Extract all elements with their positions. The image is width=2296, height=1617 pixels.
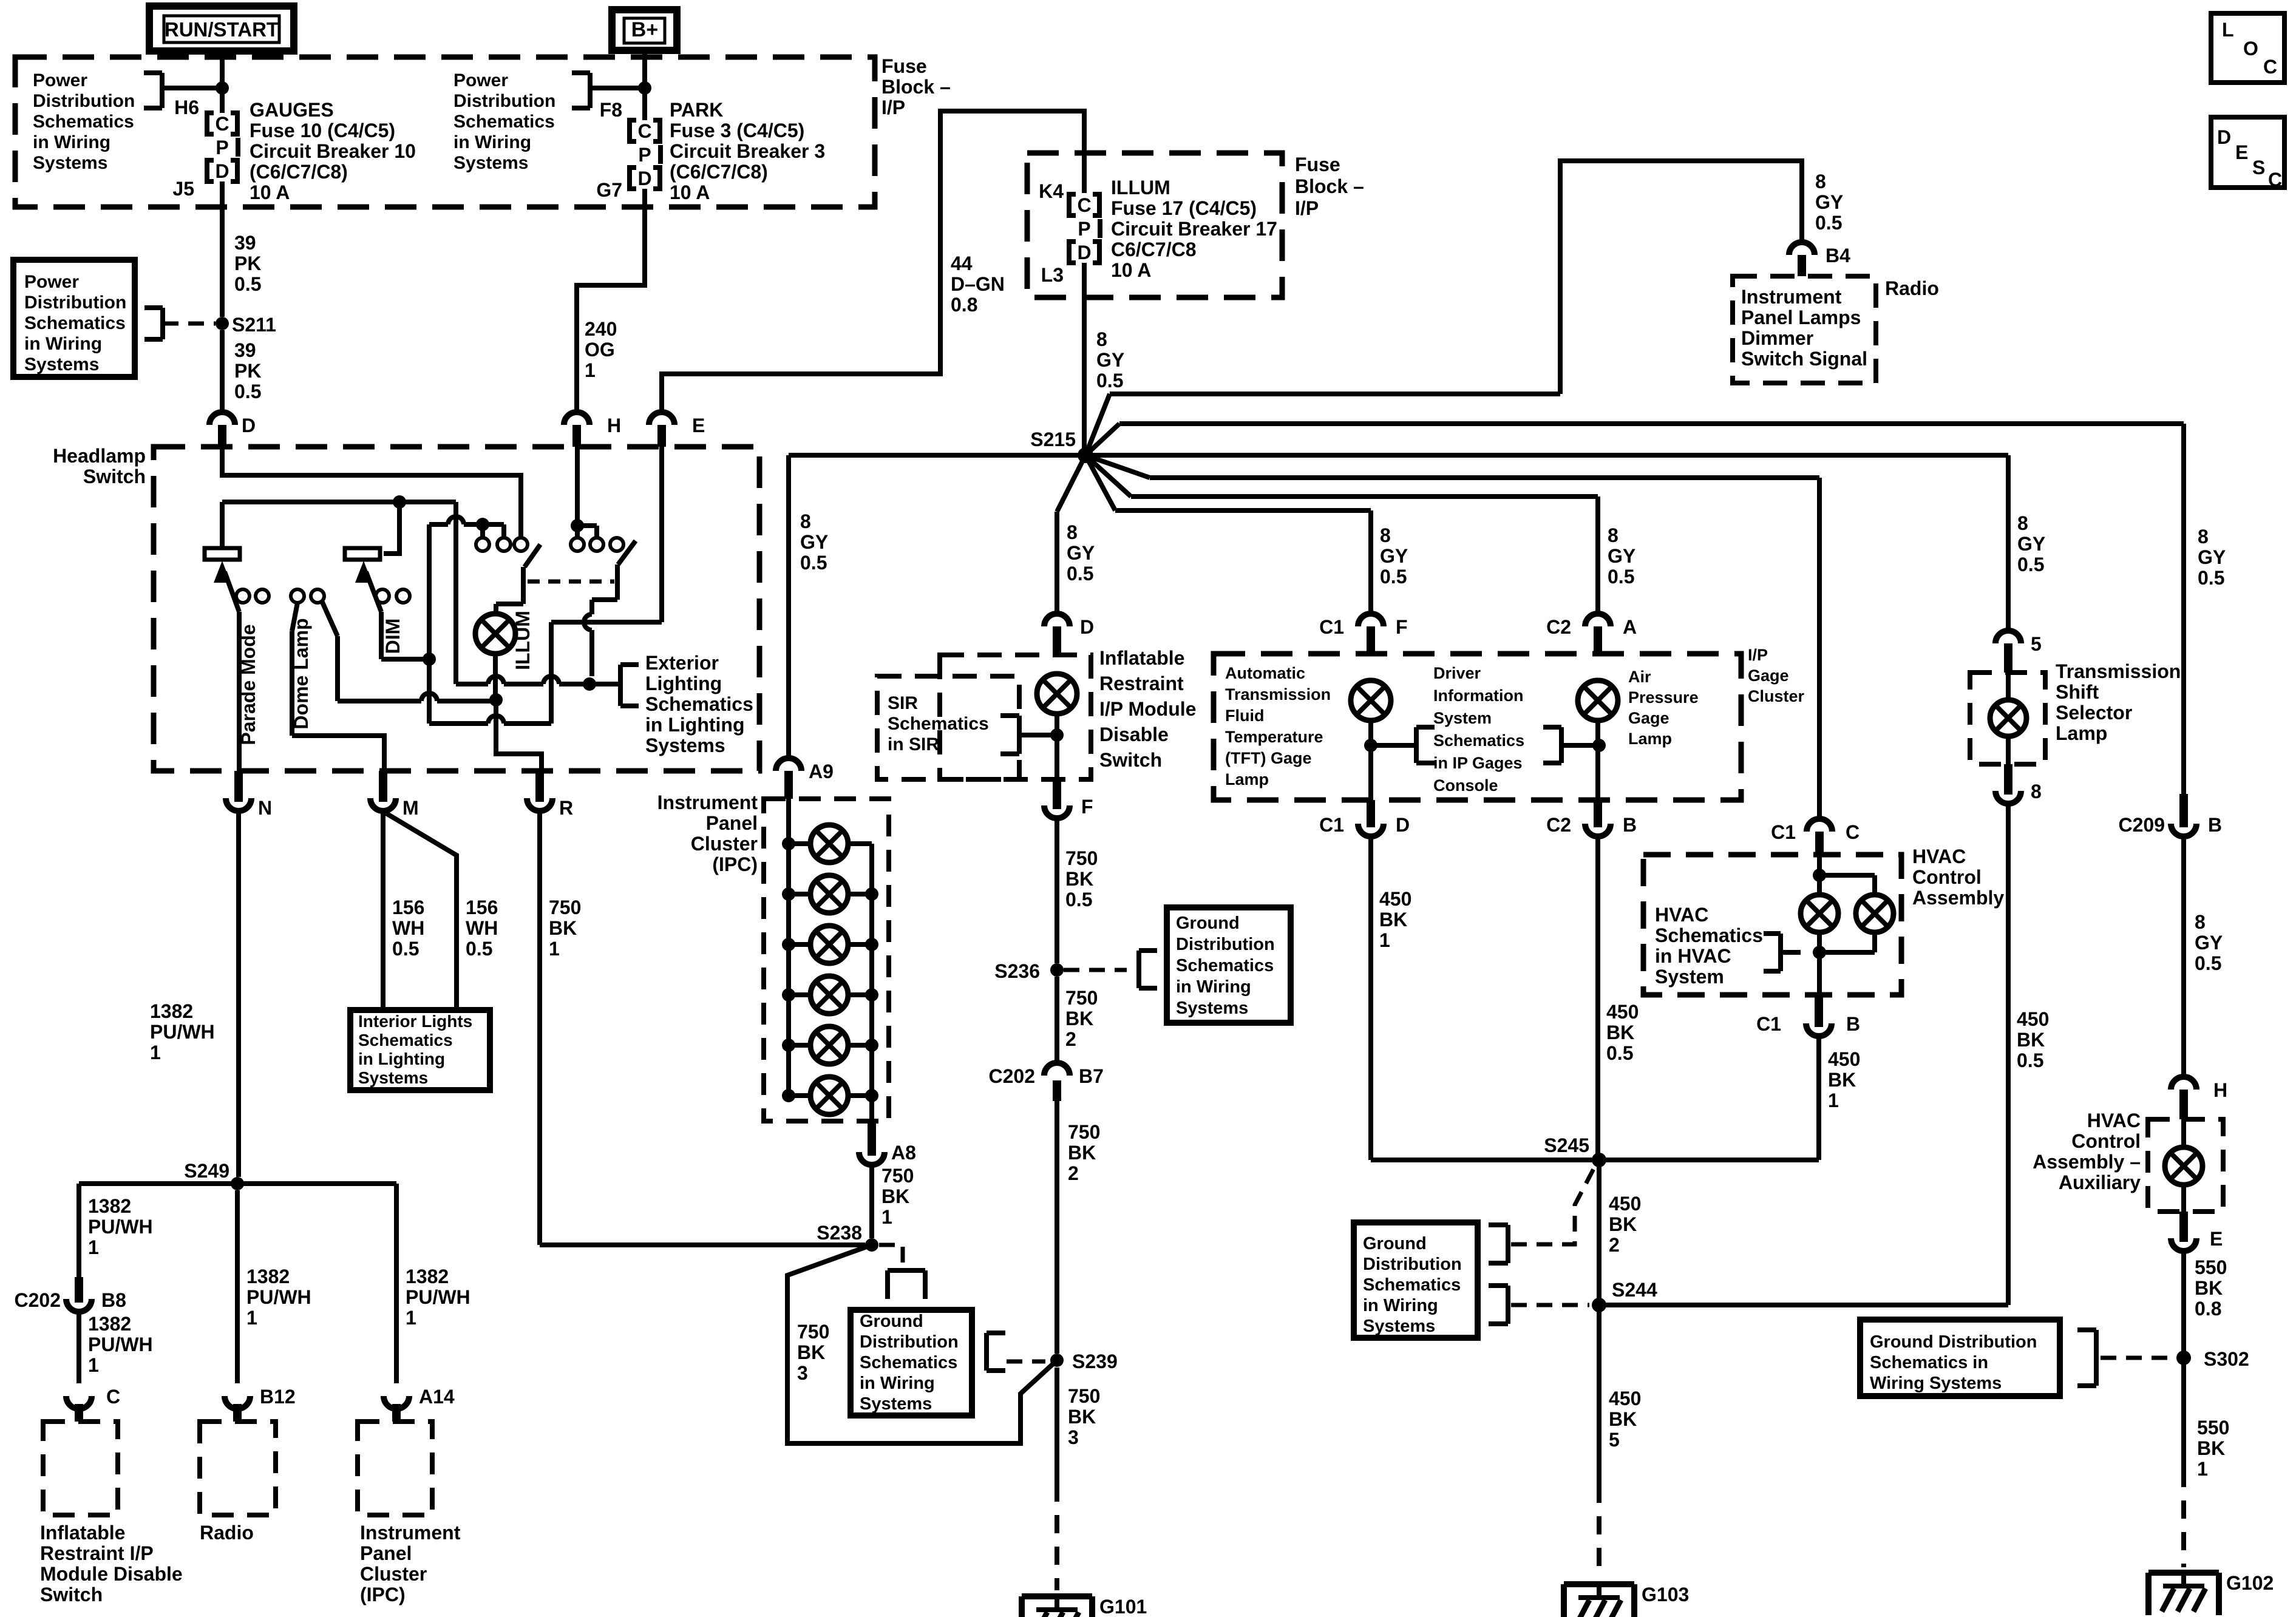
svg-text:PK: PK <box>234 253 261 274</box>
svg-text:Systems: Systems <box>33 153 107 173</box>
svg-text:Switch: Switch <box>40 1584 103 1605</box>
svg-text:Schematics: Schematics <box>888 714 989 734</box>
svg-text:HVAC: HVAC <box>2087 1110 2141 1131</box>
svg-text:750: 750 <box>549 897 581 918</box>
svg-text:Ground: Ground <box>1176 914 1240 933</box>
svg-text:RUN/START: RUN/START <box>165 18 279 41</box>
svg-text:C: C <box>2268 169 2282 191</box>
svg-text:B+: B+ <box>631 18 658 41</box>
svg-text:Systems: Systems <box>358 1068 428 1087</box>
svg-text:0.5: 0.5 <box>1067 563 1093 585</box>
svg-text:8: 8 <box>1815 171 1826 192</box>
svg-text:D: D <box>215 160 229 182</box>
svg-text:P: P <box>1078 218 1090 240</box>
svg-text:Fuse: Fuse <box>881 55 927 77</box>
svg-text:Schematics: Schematics <box>1176 956 1274 975</box>
svg-text:B12: B12 <box>260 1386 296 1408</box>
svg-text:Inflatable: Inflatable <box>1099 647 1184 669</box>
svg-text:B7: B7 <box>1079 1065 1104 1087</box>
svg-text:S211: S211 <box>232 314 276 336</box>
svg-text:Cluster: Cluster <box>1748 687 1805 705</box>
svg-text:C: C <box>215 113 229 135</box>
svg-text:D: D <box>1077 242 1091 263</box>
svg-text:1: 1 <box>406 1307 416 1329</box>
svg-text:1382: 1382 <box>150 1000 193 1022</box>
svg-text:S302: S302 <box>2204 1348 2249 1370</box>
svg-text:Power: Power <box>24 272 79 292</box>
svg-text:Restraint: Restraint <box>1099 673 1184 694</box>
svg-text:39: 39 <box>234 232 256 254</box>
svg-text:1: 1 <box>549 938 560 960</box>
svg-text:D: D <box>242 415 256 436</box>
svg-text:(C6/C7/C8): (C6/C7/C8) <box>250 161 348 183</box>
svg-text:C202: C202 <box>989 1065 1036 1087</box>
svg-text:PU/WH: PU/WH <box>150 1021 215 1043</box>
svg-text:BK: BK <box>2195 1277 2223 1299</box>
svg-text:D: D <box>1080 616 1094 638</box>
svg-text:N: N <box>258 797 272 819</box>
svg-text:Distribution: Distribution <box>453 91 555 111</box>
svg-text:Schematics: Schematics <box>453 112 555 132</box>
svg-text:BK: BK <box>881 1185 909 1207</box>
svg-text:8: 8 <box>2198 526 2209 547</box>
svg-text:C1: C1 <box>1319 616 1344 638</box>
svg-text:C1: C1 <box>1756 1013 1781 1035</box>
svg-text:H: H <box>607 415 621 436</box>
svg-text:I/P: I/P <box>1748 646 1768 664</box>
svg-text:Circuit Breaker 10: Circuit Breaker 10 <box>250 140 416 162</box>
svg-text:PK: PK <box>234 360 261 382</box>
svg-text:WH: WH <box>392 917 424 939</box>
svg-text:Instrument: Instrument <box>1741 286 1842 308</box>
svg-text:C2: C2 <box>1546 616 1571 638</box>
svg-text:in Wiring: in Wiring <box>33 132 110 152</box>
svg-text:Fuse: Fuse <box>1295 154 1340 175</box>
svg-text:0.8: 0.8 <box>951 294 977 316</box>
svg-text:GY: GY <box>2017 533 2045 555</box>
svg-text:O: O <box>2243 38 2258 59</box>
svg-text:450: 450 <box>1379 888 1411 910</box>
svg-text:Systems: Systems <box>1363 1317 1435 1336</box>
svg-text:0.5: 0.5 <box>1815 212 1842 234</box>
svg-text:450: 450 <box>2017 1008 2049 1030</box>
svg-text:BK: BK <box>1379 909 1407 931</box>
svg-text:A14: A14 <box>419 1386 455 1408</box>
svg-text:BK: BK <box>1068 1406 1096 1428</box>
svg-text:F8: F8 <box>600 99 622 121</box>
svg-text:5: 5 <box>1609 1429 1620 1451</box>
svg-text:PU/WH: PU/WH <box>246 1286 311 1308</box>
svg-text:Lamp: Lamp <box>2056 722 2107 744</box>
svg-text:B4: B4 <box>1826 245 1850 266</box>
svg-text:C: C <box>1077 194 1091 216</box>
svg-text:Wiring Systems: Wiring Systems <box>1870 1374 2002 1393</box>
svg-text:in Wiring: in Wiring <box>453 132 531 152</box>
svg-text:C1: C1 <box>1319 814 1344 836</box>
svg-text:C202: C202 <box>15 1289 61 1311</box>
svg-text:in Lighting: in Lighting <box>358 1049 445 1068</box>
svg-text:2: 2 <box>1065 1028 1076 1050</box>
svg-text:1382: 1382 <box>246 1266 290 1287</box>
svg-text:Systems: Systems <box>1176 998 1248 1018</box>
svg-text:BK: BK <box>2017 1029 2045 1051</box>
svg-text:Block –: Block – <box>881 76 951 98</box>
svg-text:550: 550 <box>2197 1417 2229 1439</box>
svg-text:Ground: Ground <box>1363 1234 1427 1253</box>
svg-text:1: 1 <box>2197 1458 2208 1480</box>
svg-text:Air: Air <box>1628 668 1651 686</box>
svg-text:Driver: Driver <box>1433 664 1481 682</box>
svg-text:8: 8 <box>1096 328 1107 350</box>
svg-text:10 A: 10 A <box>1111 259 1151 281</box>
svg-text:D: D <box>637 168 651 189</box>
svg-text:Pressure: Pressure <box>1628 688 1699 707</box>
svg-text:0.5: 0.5 <box>2017 554 2044 575</box>
svg-text:750: 750 <box>881 1165 914 1187</box>
svg-text:450: 450 <box>1609 1388 1641 1409</box>
svg-text:Transmission: Transmission <box>2056 660 2181 682</box>
svg-text:R: R <box>559 797 573 819</box>
svg-text:S249: S249 <box>184 1160 229 1182</box>
svg-text:S215: S215 <box>1030 429 1076 450</box>
svg-text:Fuse 3 (C4/C5): Fuse 3 (C4/C5) <box>670 120 804 141</box>
svg-text:1382: 1382 <box>88 1195 131 1217</box>
svg-text:Schematics in: Schematics in <box>1870 1353 1988 1372</box>
svg-text:Transmission: Transmission <box>1225 685 1331 703</box>
svg-text:Switch: Switch <box>83 466 146 487</box>
svg-text:OG: OG <box>585 339 615 361</box>
svg-text:Shift: Shift <box>2056 681 2099 703</box>
svg-text:WH: WH <box>466 917 498 939</box>
svg-text:750: 750 <box>1065 847 1098 869</box>
svg-text:H6: H6 <box>174 97 199 118</box>
svg-text:Distribution: Distribution <box>33 91 135 111</box>
svg-text:C209: C209 <box>2119 814 2165 836</box>
svg-text:750: 750 <box>1065 987 1098 1009</box>
svg-text:Schematics: Schematics <box>33 112 134 132</box>
svg-text:I/P Module: I/P Module <box>1099 698 1196 720</box>
svg-text:BK: BK <box>1609 1213 1637 1235</box>
svg-text:I/P: I/P <box>881 97 905 118</box>
svg-text:D: D <box>2217 126 2231 148</box>
svg-text:Panel Lamps: Panel Lamps <box>1741 307 1861 328</box>
svg-text:0.5: 0.5 <box>2195 952 2221 974</box>
svg-text:44: 44 <box>951 253 973 274</box>
svg-text:(TFT) Gage: (TFT) Gage <box>1225 749 1312 767</box>
svg-text:E: E <box>2235 141 2248 163</box>
svg-text:Lamp: Lamp <box>1628 730 1672 748</box>
svg-text:M: M <box>402 797 419 819</box>
svg-text:B: B <box>2208 814 2222 836</box>
svg-text:BK: BK <box>1609 1408 1637 1430</box>
svg-text:Distribution: Distribution <box>860 1332 959 1352</box>
svg-text:Fuse 17 (C4/C5): Fuse 17 (C4/C5) <box>1111 197 1257 219</box>
svg-text:8: 8 <box>2017 512 2028 534</box>
svg-text:C: C <box>2263 56 2277 78</box>
svg-text:F: F <box>1081 796 1093 818</box>
svg-text:Schematics: Schematics <box>645 693 753 715</box>
svg-text:HVAC: HVAC <box>1912 846 1966 867</box>
svg-text:Console: Console <box>1433 776 1498 795</box>
svg-text:ILLUM: ILLUM <box>1111 177 1170 198</box>
svg-text:K4: K4 <box>1039 180 1064 202</box>
svg-text:39: 39 <box>234 339 256 361</box>
svg-text:GY: GY <box>2198 546 2226 568</box>
svg-text:8: 8 <box>2031 781 2042 802</box>
svg-text:Gage: Gage <box>1628 709 1669 727</box>
svg-text:3: 3 <box>797 1362 808 1384</box>
svg-text:Selector: Selector <box>2056 702 2132 724</box>
svg-text:in SIR: in SIR <box>888 734 939 754</box>
svg-text:0.5: 0.5 <box>392 938 419 960</box>
svg-text:in Lighting: in Lighting <box>645 714 745 736</box>
svg-text:Power: Power <box>453 70 508 90</box>
svg-text:8: 8 <box>1067 521 1078 543</box>
svg-text:1: 1 <box>246 1307 257 1329</box>
svg-text:BK: BK <box>1068 1142 1096 1164</box>
svg-text:0.5: 0.5 <box>800 552 827 574</box>
svg-text:L3: L3 <box>1041 264 1064 286</box>
svg-text:A9: A9 <box>809 761 834 782</box>
svg-text:Schematics: Schematics <box>1655 924 1763 946</box>
svg-text:Circuit Breaker 17: Circuit Breaker 17 <box>1111 218 1277 240</box>
svg-text:450: 450 <box>1609 1193 1641 1215</box>
svg-text:C: C <box>1846 821 1860 843</box>
svg-text:Assembly: Assembly <box>1912 887 2004 909</box>
svg-text:Schematics: Schematics <box>860 1353 957 1372</box>
svg-text:S238: S238 <box>817 1222 862 1244</box>
svg-text:B: B <box>1623 814 1637 836</box>
svg-text:Schematics: Schematics <box>1433 731 1524 750</box>
svg-text:Panel: Panel <box>706 812 758 834</box>
svg-text:Dimmer: Dimmer <box>1741 327 1813 349</box>
svg-text:C6/C7/C8: C6/C7/C8 <box>1111 239 1197 260</box>
svg-text:750: 750 <box>1068 1121 1100 1143</box>
svg-text:Instrument: Instrument <box>360 1522 461 1544</box>
svg-text:BK: BK <box>1065 868 1093 890</box>
svg-text:750: 750 <box>1068 1385 1100 1407</box>
svg-text:1: 1 <box>1828 1090 1839 1111</box>
svg-text:in Wiring: in Wiring <box>1176 977 1251 997</box>
svg-text:S245: S245 <box>1544 1134 1589 1156</box>
svg-text:(IPC): (IPC) <box>360 1584 406 1605</box>
svg-text:C2: C2 <box>1546 814 1571 836</box>
svg-text:Schematics: Schematics <box>24 313 126 333</box>
svg-text:1382: 1382 <box>406 1266 449 1287</box>
svg-text:B8: B8 <box>101 1289 126 1311</box>
svg-text:Power: Power <box>33 70 87 90</box>
svg-text:D: D <box>1396 814 1410 836</box>
svg-text:Schematics: Schematics <box>358 1031 453 1049</box>
svg-text:GY: GY <box>1815 191 1843 213</box>
svg-text:Ground: Ground <box>860 1312 923 1331</box>
svg-text:G101: G101 <box>1099 1596 1147 1617</box>
svg-text:Cluster: Cluster <box>360 1563 427 1585</box>
svg-text:System: System <box>1655 966 1724 988</box>
svg-text:GAUGES: GAUGES <box>250 99 334 121</box>
svg-text:GY: GY <box>1608 545 1635 567</box>
svg-text:C: C <box>106 1386 120 1408</box>
svg-text:0.5: 0.5 <box>1065 889 1092 910</box>
svg-text:10 A: 10 A <box>250 181 290 203</box>
svg-text:Distribution: Distribution <box>24 293 126 313</box>
svg-text:Module Disable: Module Disable <box>40 1563 183 1585</box>
svg-text:S236: S236 <box>994 960 1040 982</box>
svg-text:240: 240 <box>585 318 617 340</box>
svg-text:S: S <box>2252 157 2265 178</box>
svg-text:Temperature: Temperature <box>1225 728 1323 746</box>
svg-text:Information: Information <box>1433 686 1524 705</box>
svg-text:PU/WH: PU/WH <box>88 1216 153 1238</box>
svg-text:1382: 1382 <box>88 1313 131 1335</box>
svg-text:Systems: Systems <box>645 734 725 756</box>
svg-text:S239: S239 <box>1072 1351 1118 1372</box>
svg-text:G102: G102 <box>2226 1572 2274 1594</box>
svg-text:750: 750 <box>797 1321 829 1343</box>
svg-text:H: H <box>2213 1079 2227 1101</box>
svg-text:5: 5 <box>2031 633 2042 655</box>
svg-text:I/P: I/P <box>1295 197 1319 219</box>
svg-text:450: 450 <box>1606 1001 1639 1023</box>
svg-text:GY: GY <box>800 531 828 553</box>
svg-text:C1: C1 <box>1771 821 1796 843</box>
svg-text:Fluid: Fluid <box>1225 707 1264 725</box>
svg-text:8: 8 <box>800 510 811 532</box>
svg-text:D–GN: D–GN <box>951 273 1005 295</box>
svg-text:S244: S244 <box>1612 1279 1657 1301</box>
svg-text:Restraint I/P: Restraint I/P <box>40 1542 154 1564</box>
svg-text:Dome Lamp: Dome Lamp <box>290 618 312 729</box>
svg-text:Systems: Systems <box>24 354 99 375</box>
svg-text:Switch: Switch <box>1099 749 1162 771</box>
svg-text:A: A <box>1623 616 1637 638</box>
svg-text:Ground Distribution: Ground Distribution <box>1870 1332 2037 1352</box>
svg-text:BK: BK <box>2197 1437 2225 1459</box>
svg-text:PARK: PARK <box>670 99 723 121</box>
svg-text:Disable: Disable <box>1099 724 1169 745</box>
svg-text:0.8: 0.8 <box>2195 1298 2221 1320</box>
svg-text:(IPC): (IPC) <box>712 853 758 875</box>
svg-text:Gage: Gage <box>1748 666 1789 685</box>
svg-text:C: C <box>637 120 651 142</box>
svg-text:DIM: DIM <box>382 619 404 654</box>
svg-text:Interior Lights: Interior Lights <box>358 1012 472 1031</box>
svg-text:Parade Mode: Parade Mode <box>237 624 259 745</box>
svg-text:BK: BK <box>1065 1008 1093 1029</box>
svg-text:0.5: 0.5 <box>466 938 492 960</box>
svg-text:0.5: 0.5 <box>1608 566 1634 588</box>
svg-text:0.5: 0.5 <box>2198 567 2224 589</box>
svg-text:GY: GY <box>1380 545 1408 567</box>
svg-text:156: 156 <box>466 897 498 918</box>
svg-text:J5: J5 <box>172 178 194 200</box>
svg-text:8: 8 <box>1608 524 1618 546</box>
svg-text:P: P <box>638 144 651 166</box>
svg-text:GY: GY <box>1096 349 1124 371</box>
svg-text:PU/WH: PU/WH <box>406 1286 470 1308</box>
svg-text:Circuit Breaker 3: Circuit Breaker 3 <box>670 140 825 162</box>
svg-text:Exterior: Exterior <box>645 652 719 674</box>
svg-text:B: B <box>1846 1013 1860 1035</box>
svg-text:Switch Signal: Switch Signal <box>1741 348 1867 370</box>
svg-text:BK: BK <box>1606 1022 1634 1043</box>
svg-text:E: E <box>2210 1228 2223 1250</box>
svg-text:3: 3 <box>1068 1426 1079 1448</box>
svg-text:156: 156 <box>392 897 424 918</box>
svg-text:Cluster: Cluster <box>691 833 758 855</box>
svg-text:in HVAC: in HVAC <box>1655 945 1731 967</box>
svg-text:Systems: Systems <box>860 1394 932 1414</box>
svg-text:Headlamp: Headlamp <box>53 445 146 467</box>
svg-text:Block –: Block – <box>1295 175 1364 197</box>
svg-text:in Wiring: in Wiring <box>860 1374 935 1393</box>
svg-text:Distribution: Distribution <box>1363 1255 1462 1274</box>
svg-text:L: L <box>2222 19 2234 41</box>
svg-text:HVAC: HVAC <box>1655 904 1708 926</box>
svg-text:0.5: 0.5 <box>234 273 261 295</box>
svg-text:8: 8 <box>1380 524 1391 546</box>
svg-text:SIR: SIR <box>888 693 918 713</box>
svg-text:Lighting: Lighting <box>645 673 722 694</box>
svg-text:Schematics: Schematics <box>1363 1275 1461 1295</box>
svg-text:1: 1 <box>88 1236 99 1258</box>
svg-text:2: 2 <box>1609 1234 1620 1256</box>
svg-text:Control: Control <box>2071 1130 2141 1152</box>
svg-text:0.5: 0.5 <box>1380 566 1407 588</box>
svg-text:GY: GY <box>1067 542 1095 564</box>
svg-text:(C6/C7/C8): (C6/C7/C8) <box>670 161 768 183</box>
svg-text:Auxiliary: Auxiliary <box>2059 1171 2141 1193</box>
svg-text:Assembly –: Assembly – <box>2033 1151 2141 1173</box>
svg-text:1: 1 <box>881 1206 892 1228</box>
svg-text:8: 8 <box>2195 911 2206 933</box>
svg-text:BK: BK <box>549 917 577 939</box>
svg-text:Automatic: Automatic <box>1225 664 1305 682</box>
svg-text:1: 1 <box>150 1042 161 1063</box>
svg-text:Systems: Systems <box>453 153 528 173</box>
svg-text:1: 1 <box>88 1354 99 1376</box>
svg-text:0.5: 0.5 <box>234 381 261 402</box>
svg-text:System: System <box>1433 709 1492 727</box>
svg-text:Lamp: Lamp <box>1225 770 1269 788</box>
svg-text:Panel: Panel <box>360 1542 412 1564</box>
svg-text:BK: BK <box>797 1341 825 1363</box>
svg-text:Control: Control <box>1912 866 1982 888</box>
svg-text:550: 550 <box>2195 1256 2227 1278</box>
svg-text:Inflatable: Inflatable <box>40 1522 125 1544</box>
svg-text:G103: G103 <box>1642 1584 1689 1605</box>
svg-text:0.5: 0.5 <box>1096 370 1123 392</box>
svg-text:P: P <box>216 137 228 158</box>
svg-text:in Wiring: in Wiring <box>1363 1296 1438 1315</box>
svg-text:450: 450 <box>1828 1048 1860 1070</box>
svg-text:E: E <box>692 415 705 436</box>
svg-text:F: F <box>1396 616 1408 638</box>
svg-text:PU/WH: PU/WH <box>88 1334 153 1355</box>
svg-text:A8: A8 <box>891 1142 916 1164</box>
svg-text:Radio: Radio <box>1885 277 1939 299</box>
svg-text:Radio: Radio <box>200 1522 254 1544</box>
svg-text:Instrument: Instrument <box>657 792 758 813</box>
svg-text:in IP Gages: in IP Gages <box>1433 754 1523 772</box>
svg-text:2: 2 <box>1068 1162 1079 1184</box>
svg-text:1: 1 <box>1379 929 1390 951</box>
svg-text:10 A: 10 A <box>670 181 710 203</box>
svg-text:GY: GY <box>2195 932 2223 954</box>
svg-text:BK: BK <box>1828 1069 1856 1091</box>
svg-text:1: 1 <box>585 359 596 381</box>
svg-text:Fuse 10 (C4/C5): Fuse 10 (C4/C5) <box>250 120 395 141</box>
